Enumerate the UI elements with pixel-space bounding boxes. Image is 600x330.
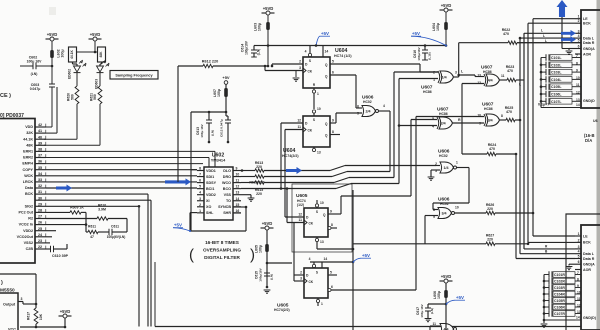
wire to J1 pin5: [517, 42, 575, 44]
svg-text:SIG2: SIG2: [25, 204, 33, 208]
svg-text:16-BIT 8 TIMES: 16-BIT 8 TIMES: [205, 240, 239, 245]
svg-text:HC86: HC86: [439, 112, 448, 116]
svg-text:3: 3: [299, 66, 301, 70]
inductor L607: [225, 84, 227, 88]
svg-text:5: 5: [332, 60, 334, 64]
bundle verticals from XOR area to mid wires: [393, 72, 395, 178]
svg-text:L: L: [545, 39, 547, 43]
svg-text:470: 470: [507, 69, 513, 73]
wire to J2 pin5: [516, 258, 575, 260]
svg-text:CE ): CE ): [0, 93, 11, 99]
svg-text:38: 38: [38, 148, 42, 152]
wire cap bank bus L: [540, 58, 542, 108]
wire L604 down: [445, 30, 447, 46]
svg-text:2: 2: [199, 203, 201, 207]
wire DLO long with blue arrow: [264, 170, 330, 172]
U605 FF4 right pins 5 6: [328, 274, 337, 276]
svg-text:4: 4: [305, 50, 307, 54]
svg-text:C107R: C107R: [554, 312, 565, 316]
wire +5V rail to U604 and C616 L604: [268, 45, 446, 47]
U605 FF3 bottom pin 13: [316, 237, 318, 249]
resistor R617 10K: [35, 304, 37, 308]
svg-text:(L16): (L16): [428, 52, 432, 59]
svg-text:41: 41: [38, 129, 42, 133]
svg-text:100μ 16V: 100μ 16V: [27, 59, 42, 63]
wire feedback top: [0, 273, 36, 275]
wire L606 down: [445, 298, 447, 330]
wire SHR stub: [233, 212, 241, 214]
svg-text:3: 3: [199, 197, 201, 201]
svg-text:3/4: 3/4: [488, 119, 493, 123]
svg-text:10: 10: [455, 206, 459, 210]
svg-text:C101R: C101R: [554, 273, 565, 277]
svg-text:8: 8: [576, 61, 578, 65]
gate U607 4/4: [484, 74, 486, 86]
svg-text:220: 220: [256, 192, 262, 196]
svg-text:HC86: HC86: [423, 90, 432, 94]
svg-text:AOR: AOR: [583, 53, 591, 57]
wire VCO2Out stub: [46, 236, 52, 238]
svg-text:10: 10: [320, 201, 324, 205]
wires into U607 2/4: [411, 119, 437, 121]
svg-text:2: 2: [299, 60, 301, 64]
U604 FF1 right pins Q Qbar: [330, 63, 420, 65]
svg-text:DIGITAL FILTER: DIGITAL FILTER: [204, 255, 240, 260]
svg-text:13: 13: [576, 98, 580, 102]
svg-text:14: 14: [576, 316, 580, 320]
svg-text:CK: CK: [308, 69, 313, 73]
svg-text:40: 40: [38, 135, 42, 139]
svg-text:5: 5: [578, 39, 580, 43]
capacitor C613: [208, 112, 210, 120]
svg-text:VCO2 In: VCO2 In: [19, 223, 34, 227]
wire L605 down: [266, 252, 268, 287]
svg-text:10: 10: [577, 291, 581, 295]
svg-text:BCK: BCK: [25, 192, 33, 196]
svg-text:12: 12: [297, 119, 301, 123]
svg-text:R: R: [458, 118, 461, 122]
svg-text:VDD1: VDD1: [206, 169, 216, 173]
svg-text:SYNCB: SYNCB: [218, 205, 231, 209]
resistor R609 1K on PC2 Out: [46, 211, 70, 213]
label AOR J1: [575, 53, 581, 55]
svg-text:C107L: C107L: [551, 100, 562, 104]
svg-text:44.1K: 44.1K: [70, 49, 74, 58]
svg-text:C611: C611: [111, 225, 119, 229]
capacitor C105R: [544, 300, 549, 302]
svg-text:WCK: WCK: [24, 174, 33, 178]
svg-text:3: 3: [21, 297, 23, 301]
gate U606 1/4: [440, 162, 454, 173]
ground C617: [425, 318, 432, 320]
wire pin41 32K up to C603 node: [46, 132, 57, 134]
wire ED603 to R621: [99, 73, 101, 86]
svg-text:100μ: 100μ: [61, 49, 65, 57]
svg-text:ED602: ED602: [68, 69, 72, 79]
svg-text:0.047μ: 0.047μ: [30, 87, 41, 91]
wire to J1 pin4: [520, 37, 575, 39]
resistor R626 220 on U606 3/4 output: [455, 212, 487, 214]
gate U606 3/4: [438, 208, 452, 219]
svg-text:44.1K: 44.1K: [23, 137, 33, 141]
svg-text:SDI1: SDI1: [206, 175, 214, 179]
svg-text:11: 11: [577, 297, 581, 301]
svg-text:C104R: C104R: [554, 293, 565, 297]
svg-text:HC74(2/2): HC74(2/2): [282, 154, 299, 158]
svg-text:8: 8: [199, 167, 201, 171]
capacitor C104L: [541, 78, 546, 80]
wire C603 stem: [51, 66, 53, 84]
wire bus BCK net: [527, 23, 529, 242]
inductor L604: [444, 22, 448, 30]
resistor R613 220 on DLO: [241, 170, 255, 172]
wire VCO2 In: [46, 224, 86, 226]
svg-text:11: 11: [299, 218, 303, 222]
capacitor C102R: [544, 280, 549, 282]
wire pin33 LRCK to U602 SDSY with blue arrow: [46, 181, 197, 183]
svg-text:R617: R617: [27, 312, 31, 320]
svg-text:C103R: C103R: [554, 286, 565, 290]
U604 FF1 left pins D CK: [272, 63, 303, 65]
svg-text:9: 9: [479, 122, 481, 126]
svg-text:1: 1: [321, 302, 323, 306]
resistor R623 470 on U607 4/4 output: [500, 79, 508, 81]
svg-text:33: 33: [38, 178, 42, 182]
wire bus LE net: [532, 19, 534, 236]
svg-text:11: 11: [236, 179, 240, 183]
inductor L605: [265, 244, 269, 252]
svg-text:LRCK: LRCK: [23, 180, 34, 184]
op-amp M5550 output box: [0, 293, 18, 330]
wire supply to FF4 top pins: [310, 261, 353, 263]
wire +5VD to L606: [445, 283, 447, 290]
resistor R621 560: [98, 86, 102, 104]
svg-text:11: 11: [298, 125, 302, 129]
wire 44.1K box to LED ED602: [72, 62, 74, 64]
svg-text:11: 11: [576, 83, 580, 87]
svg-text:PC2 Out: PC2 Out: [18, 211, 33, 215]
svg-text:29: 29: [38, 202, 42, 206]
resistor R614 220 on DRO: [241, 176, 255, 178]
svg-text:7: 7: [576, 54, 578, 58]
svg-text:6: 6: [578, 45, 580, 49]
U604 FF2 bottom pin 13: [313, 147, 315, 152]
svg-text:VSS2: VSS2: [24, 241, 33, 245]
svg-text:HC02: HC02: [439, 154, 448, 158]
svg-text:GND(D: GND(D: [583, 99, 595, 103]
svg-text:VCO2Out: VCO2Out: [17, 235, 34, 239]
svg-text:100μ: 100μ: [217, 89, 221, 97]
svg-text:4: 4: [578, 34, 580, 38]
svg-text:2: 2: [300, 271, 302, 275]
svg-text:SDSY: SDSY: [206, 181, 217, 185]
svg-text:(: (: [189, 247, 194, 264]
svg-text:1: 1: [578, 232, 580, 236]
capacitor C102L: [541, 64, 546, 66]
wire bus Data L net: [519, 38, 521, 254]
flip-flop U604 1/2 body: [303, 57, 330, 88]
network R611 C611: [85, 212, 87, 232]
resistor R622 470: [459, 42, 508, 44]
svg-text:12: 12: [298, 213, 302, 217]
ground cap bank R: [543, 320, 545, 323]
capacitor C103R: [544, 287, 549, 289]
IC U-left PD0037 body: [0, 119, 35, 264]
wire L602 down: [51, 58, 53, 66]
wires into U607 1/4: [420, 71, 438, 73]
svg-text:2/4: 2/4: [441, 122, 446, 126]
page border bottom: [155, 326, 581, 328]
svg-text:9: 9: [236, 167, 238, 171]
IC U604 half2 flip-flop body: [303, 116, 330, 147]
wire +5VD2 down: [94, 41, 96, 52]
wire pin37 ERR2: [46, 157, 209, 159]
svg-text:GND(D): GND(D): [583, 316, 597, 320]
svg-text:25: 25: [38, 227, 42, 231]
svg-text:10: 10: [576, 76, 580, 80]
wire R622 from gate output up: [458, 43, 460, 77]
wire cap bank bus R: [543, 275, 545, 321]
svg-text:HC86: HC86: [483, 70, 492, 74]
svg-text:R611: R611: [88, 225, 96, 229]
scan smudge top-left: [49, 7, 56, 15]
wires into U606 2/4: [356, 107, 362, 109]
svg-text:C102L: C102L: [551, 63, 562, 67]
svg-text:1/4: 1/4: [444, 166, 449, 170]
capacitor C107R: [544, 313, 549, 315]
flip-flop U605 2/2 body: [304, 268, 328, 298]
J2 pin 14: [544, 319, 575, 321]
svg-text:100μ: 100μ: [437, 291, 441, 299]
connector J2 body: [581, 225, 600, 330]
wire R620 to pin 40: [76, 104, 78, 139]
svg-text:7: 7: [199, 173, 201, 177]
svg-text:COPY: COPY: [23, 168, 34, 172]
svg-text:220: 220: [256, 165, 262, 169]
wire to J2 pin2: [528, 241, 575, 243]
svg-text:+5VD: +5VD: [60, 309, 71, 314]
svg-text:C105R: C105R: [554, 299, 565, 303]
wire BCO long: [241, 188, 336, 190]
svg-text:3/4: 3/4: [442, 212, 447, 216]
svg-text:4: 4: [578, 250, 580, 254]
svg-text:39: 39: [38, 141, 42, 145]
svg-text:16: 16: [236, 209, 240, 213]
svg-text:ERR1: ERR1: [23, 150, 33, 154]
svg-text:5: 5: [330, 271, 332, 275]
svg-text:+5VD: +5VD: [262, 221, 273, 226]
svg-text:6: 6: [199, 179, 201, 183]
svg-text:3.9M: 3.9M: [98, 207, 106, 211]
wire to J2 pin1: [533, 235, 575, 237]
svg-text:13: 13: [320, 240, 324, 244]
svg-text:SHL: SHL: [206, 211, 214, 215]
boxed label 44.1K: [69, 47, 77, 62]
connector J1 body: [581, 10, 600, 108]
wire L603 down: [267, 30, 269, 66]
gate U606 4/4 partial at bottom: [440, 324, 454, 330]
wire U606 2/4 output: [379, 110, 391, 112]
wires into U607 3/4: [416, 116, 484, 118]
svg-text:Data L: Data L: [583, 36, 595, 40]
wire +5VD1 to L602: [51, 41, 53, 50]
wire pin34 WCK to U602 SDI1: [46, 175, 197, 177]
U604 FF1 bottom pin 1: [313, 88, 315, 109]
resistor R625 470 on U607 3/4 output: [500, 119, 507, 121]
blue arrow into Data L J1: [561, 30, 576, 36]
wire VDD rail horizontal: [191, 111, 226, 113]
svg-text:1: 1: [456, 161, 458, 165]
boxed label 48K: [98, 47, 106, 62]
svg-text:BCK: BCK: [583, 241, 591, 245]
svg-text:13: 13: [236, 191, 240, 195]
wire between 44.1K and 48K boxes: [76, 51, 95, 53]
svg-text:12: 12: [236, 185, 240, 189]
svg-text:100μ: 100μ: [258, 23, 262, 31]
capacitor C612: [225, 112, 227, 116]
wire SHL net SYNCB: [233, 206, 246, 208]
svg-text:9: 9: [576, 69, 578, 73]
U604 FF2 top pin 10: [312, 110, 315, 113]
wire to J1 pin3: [524, 32, 575, 34]
blue up arrow AOL: [557, 0, 568, 17]
ground U606 1/4: [428, 176, 435, 178]
svg-text:S: S: [316, 210, 318, 214]
wire L607 down to VDD rail: [225, 97, 227, 112]
wire R621 to pin 39: [99, 104, 101, 145]
U605 FF3 right pins 9 8: [328, 213, 341, 215]
blue arrow on LRCK wire: [165, 178, 191, 185]
wire U607 2/4 output net R: [453, 122, 485, 124]
wire C603 to VDD pin 42: [51, 87, 53, 127]
svg-text:WCO: WCO: [222, 181, 231, 185]
svg-text:Output: Output: [3, 303, 16, 307]
U604 FF1 top pins 4 and 14: [309, 46, 311, 58]
LED ED602: [74, 66, 81, 72]
svg-text:GND(A: GND(A: [583, 263, 595, 267]
svg-text:EMPH: EMPH: [22, 162, 33, 166]
wire +5VD to R617 bottom: [64, 318, 66, 327]
IC PD0037 pins and labels: [35, 126, 46, 128]
wire output to R617 node: [22, 302, 24, 305]
ground at J2 GND(A: [569, 263, 575, 265]
svg-text:+5V: +5V: [412, 31, 420, 36]
svg-text:2/4: 2/4: [366, 110, 371, 114]
svg-text:470: 470: [503, 32, 509, 36]
wire +5VD to L605: [266, 230, 268, 244]
svg-text:CK: CK: [309, 280, 314, 284]
svg-text:Data R: Data R: [583, 257, 595, 261]
frame around connector J2: [566, 214, 600, 330]
svg-text:6: 6: [578, 260, 580, 264]
svg-text:14: 14: [324, 257, 328, 261]
svg-text:HC86: HC86: [484, 107, 493, 111]
svg-text:13: 13: [577, 310, 581, 314]
svg-text:100μ 16V: 100μ 16V: [420, 303, 424, 317]
svg-text:3: 3: [578, 245, 580, 249]
node junction C602: [51, 65, 54, 68]
svg-text:12: 12: [577, 304, 581, 308]
wire pin38 ERR1: [46, 150, 215, 152]
svg-text:HC74(2/2): HC74(2/2): [274, 308, 290, 312]
svg-text:+5V: +5V: [456, 295, 464, 300]
connector J2 pins: [575, 235, 581, 237]
svg-text:C101L: C101L: [551, 56, 562, 60]
svg-text:R612 220: R612 220: [202, 60, 218, 64]
svg-text:3: 3: [455, 71, 457, 75]
svg-text:S: S: [313, 118, 315, 122]
wire U607 1/4 output net L: [454, 76, 459, 78]
flip-flop U605 1/2 body: [304, 208, 328, 237]
svg-text:100μ: 100μ: [436, 23, 440, 31]
page edge shading right: [597, 0, 600, 330]
svg-text:HC02: HC02: [440, 202, 449, 206]
wire to J2 pin4: [520, 253, 575, 255]
U605 FF3 top pin 10: [316, 200, 318, 208]
svg-text:8: 8: [501, 114, 503, 118]
svg-text:8: 8: [332, 130, 334, 134]
svg-text:32: 32: [38, 184, 42, 188]
capacitor C603: [49, 83, 55, 85]
svg-text:5: 5: [578, 255, 580, 259]
svg-text:R2: R2: [28, 217, 33, 221]
svg-text:+5VD: +5VD: [90, 32, 101, 37]
svg-text:11: 11: [501, 74, 505, 78]
svg-text:C105L: C105L: [551, 85, 562, 89]
svg-text:C612 0.047μ: C612 0.047μ: [220, 119, 224, 137]
svg-text:1: 1: [578, 15, 580, 19]
svg-text:35: 35: [38, 166, 42, 170]
svg-text:560: 560: [93, 94, 97, 100]
svg-text:DRO: DRO: [223, 175, 231, 179]
svg-text:26: 26: [38, 221, 42, 225]
svg-text:D/A: D/A: [585, 138, 592, 143]
svg-text:1: 1: [317, 92, 319, 96]
svg-text:BCO: BCO: [223, 187, 231, 191]
svg-text:VDD2: VDD2: [206, 193, 216, 197]
svg-text:9: 9: [577, 284, 579, 288]
capacitor C103L: [541, 71, 546, 73]
svg-text:9: 9: [330, 210, 332, 214]
wire ED602 to R620: [76, 73, 78, 86]
svg-text:L: L: [543, 34, 545, 38]
ground C615 bottom: [264, 289, 271, 291]
svg-text:220: 220: [487, 237, 493, 241]
svg-text:BCI1: BCI1: [206, 187, 214, 191]
svg-text:(LN): (LN): [270, 274, 274, 280]
svg-text:14: 14: [325, 50, 329, 54]
svg-text:(LN): (LN): [211, 130, 215, 136]
inductor L606: [444, 290, 448, 298]
capacitor C104R: [544, 293, 549, 295]
svg-text:(LN): (LN): [257, 49, 261, 55]
svg-text:9: 9: [332, 119, 334, 123]
svg-text:C106R: C106R: [554, 306, 565, 310]
svg-text:+5VD: +5VD: [441, 274, 452, 279]
svg-text:C2B: C2B: [26, 247, 34, 251]
svg-text:Data L: Data L: [583, 252, 595, 256]
svg-text:1: 1: [199, 209, 201, 213]
wire U606 1/4 output: [457, 167, 470, 169]
svg-text:8: 8: [577, 278, 579, 282]
svg-text:10: 10: [236, 173, 240, 177]
svg-text:ERR2: ERR2: [23, 156, 33, 160]
U604 FF2 right pins 9 8: [330, 122, 336, 124]
svg-text:(LN): (LN): [31, 72, 38, 76]
inductor L602: [50, 50, 54, 58]
resistor R620 560: [75, 86, 79, 104]
wire pin30: [46, 199, 151, 201]
